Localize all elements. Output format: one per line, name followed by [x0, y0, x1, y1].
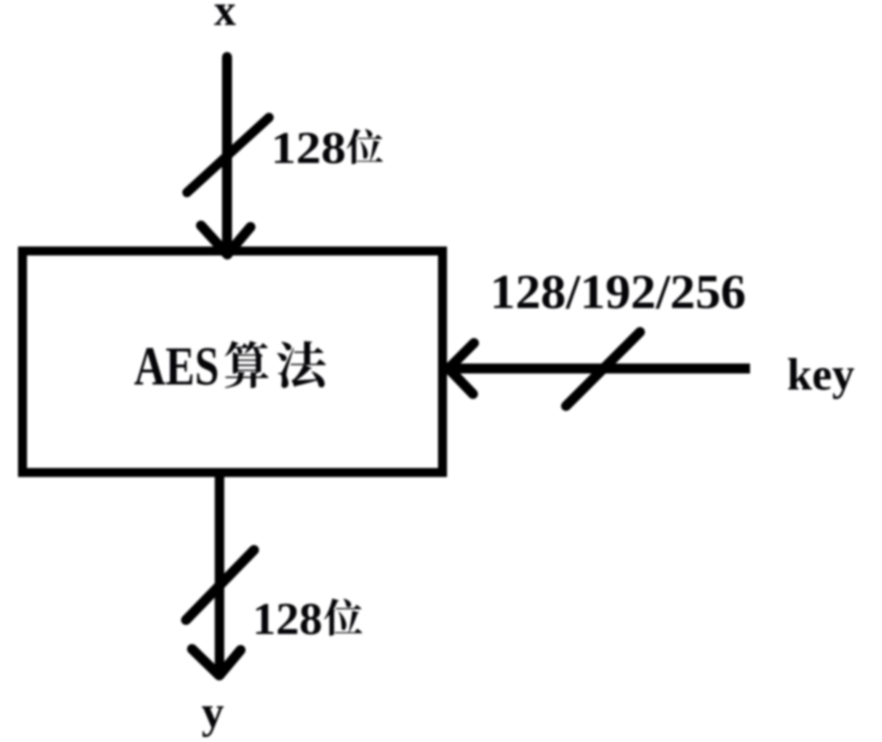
- svg-text:AES: AES: [134, 336, 219, 397]
- label 128位 bottom: 位 glyph: [324, 598, 362, 635]
- wire input x vertical: [222, 57, 232, 252]
- svg-text:128: 128: [253, 593, 323, 644]
- label 算 glyph: [225, 341, 269, 388]
- label 法 glyph: [277, 341, 326, 388]
- wire key horizontal: [449, 364, 750, 374]
- label 128位 top: 位 glyph: [347, 129, 383, 164]
- arrowhead into box right: [449, 343, 475, 394]
- svg-text:key: key: [787, 350, 855, 400]
- svg-text:128/192/256: 128/192/256: [490, 264, 746, 319]
- bus slash key: [566, 332, 640, 406]
- wire output y vertical: [215, 477, 225, 672]
- bus slash output y: [186, 550, 254, 620]
- svg-text:128: 128: [271, 123, 346, 173]
- block AES box: [23, 251, 443, 473]
- svg-text:y: y: [202, 688, 225, 738]
- svg-text:x: x: [214, 0, 236, 35]
- arrowhead into box top: [201, 226, 251, 255]
- arrowhead output y: [192, 649, 241, 676]
- bus slash input x: [187, 118, 269, 193]
